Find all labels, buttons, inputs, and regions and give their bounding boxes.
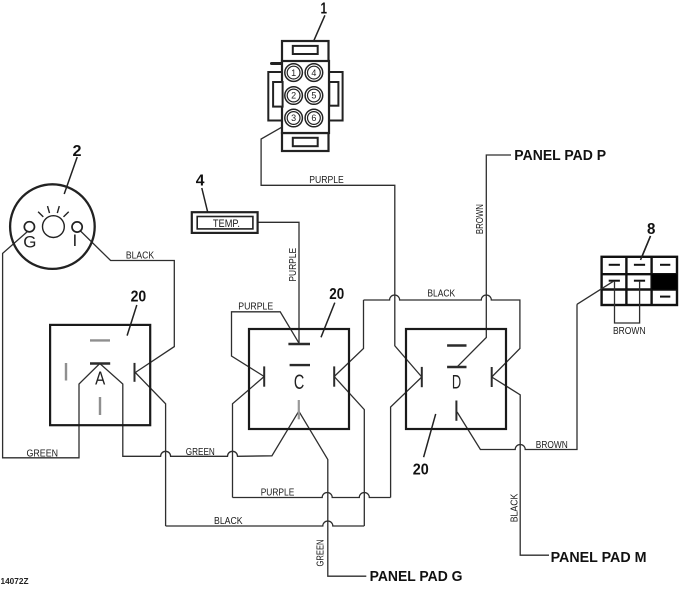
svg-text:I: I: [73, 231, 78, 250]
svg-text:1: 1: [291, 68, 296, 78]
svg-text:5: 5: [311, 91, 316, 101]
svg-text:20: 20: [413, 461, 429, 478]
svg-text:8: 8: [647, 221, 655, 238]
svg-text:20: 20: [131, 289, 147, 306]
svg-text:BLACK: BLACK: [214, 516, 243, 527]
svg-text:PURPLE: PURPLE: [238, 302, 273, 313]
svg-text:PANEL PAD G: PANEL PAD G: [370, 568, 463, 585]
svg-text:BROWN: BROWN: [536, 440, 568, 451]
svg-text:6: 6: [311, 113, 316, 123]
svg-text:GREEN: GREEN: [186, 447, 215, 458]
svg-text:BLACK: BLACK: [126, 251, 154, 262]
svg-text:D: D: [452, 373, 461, 394]
svg-text:G: G: [23, 232, 36, 251]
svg-text:2: 2: [73, 143, 82, 160]
svg-text:PANEL PAD P: PANEL PAD P: [514, 147, 606, 164]
svg-text:BLACK: BLACK: [427, 289, 455, 300]
svg-text:BROWN: BROWN: [613, 326, 646, 337]
svg-text:BLACK: BLACK: [510, 493, 521, 522]
svg-text:14072Z: 14072Z: [1, 576, 29, 586]
svg-text:TEMP.: TEMP.: [213, 218, 240, 230]
svg-text:BROWN: BROWN: [475, 204, 486, 234]
svg-text:GREEN: GREEN: [316, 540, 327, 567]
svg-text:4: 4: [196, 172, 205, 189]
svg-text:2: 2: [291, 91, 296, 101]
svg-text:PURPLE: PURPLE: [309, 175, 344, 186]
svg-text:20: 20: [329, 286, 344, 303]
svg-text:3: 3: [291, 113, 296, 123]
svg-text:PANEL PAD M: PANEL PAD M: [551, 549, 647, 566]
svg-text:C: C: [294, 371, 304, 394]
svg-text:1: 1: [321, 1, 328, 18]
svg-text:PURPLE: PURPLE: [288, 248, 299, 282]
svg-text:PURPLE: PURPLE: [261, 487, 295, 498]
svg-text:GREEN: GREEN: [27, 448, 59, 459]
svg-text:4: 4: [311, 68, 316, 78]
svg-text:A: A: [95, 369, 105, 389]
